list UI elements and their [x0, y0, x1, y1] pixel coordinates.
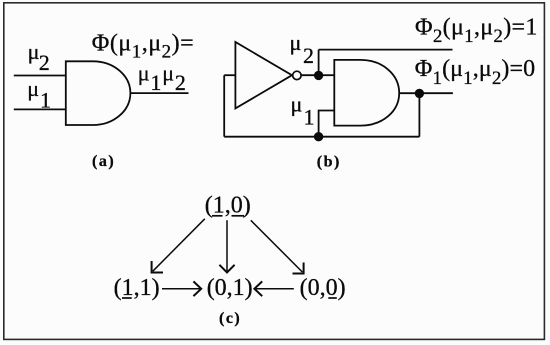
wire: output node down to bottom rail	[418, 93, 420, 136]
svg-text:μ: μ	[27, 76, 39, 101]
node output junction dot	[415, 89, 424, 98]
label u1 (node b)	[291, 92, 315, 130]
wire: node u2 riser up	[318, 50, 320, 76]
svg-text:(1,1): (1,1)	[114, 275, 160, 301]
underline under 0 of (1,0)	[232, 215, 245, 217]
svg-text:1: 1	[304, 105, 315, 130]
wire: node u2 to AND gate U3 top input	[319, 74, 335, 76]
wire: feedback vertical	[223, 75, 225, 137]
svg-text:(1,0): (1,0)	[205, 192, 251, 218]
arrow (0,0) to (0,1)	[254, 281, 293, 296]
wire: feedback stub into inverter input	[224, 74, 235, 76]
svg-text:1: 1	[40, 88, 51, 113]
wire: output of U1	[130, 92, 188, 94]
underline under 1 of (1,0)	[212, 215, 223, 217]
node u2 junction dot	[314, 71, 323, 80]
and-gate U3	[334, 60, 399, 126]
wire: top output Phi2	[319, 49, 453, 51]
label u1 (input a)	[27, 76, 51, 113]
arrow (1,0) to (0,0)	[251, 220, 305, 274]
arrow (1,1) to (0,1)	[162, 281, 201, 296]
arrow (1,0) to (0,1)	[219, 220, 234, 272]
wire: bottom rail	[224, 136, 419, 138]
arrow (1,0) to (1,1)	[151, 219, 205, 274]
inverter U2 bubble	[293, 71, 301, 79]
wire: bubble to node u2	[302, 74, 319, 76]
svg-text:(b): (b)	[317, 154, 341, 171]
wire: input u2 to AND gate U1	[14, 75, 66, 77]
wire: node u1 riser to AND gate U3 bottom input	[319, 111, 335, 137]
svg-text:μ: μ	[290, 30, 302, 55]
svg-text:(c): (c)	[219, 310, 241, 327]
wire: input u1 to AND gate U1	[14, 108, 66, 110]
label u2 (input a)	[28, 39, 50, 75]
svg-text:(a): (a)	[92, 153, 115, 170]
svg-text:2: 2	[303, 43, 314, 68]
svg-text:(0,1): (0,1)	[207, 275, 253, 301]
and-gate U1	[66, 61, 131, 125]
underline under first 1 of (1,1)	[122, 297, 132, 299]
svg-text:(0,0): (0,0)	[300, 275, 346, 301]
svg-text:μ: μ	[291, 92, 303, 117]
underline under second 0 of (0,0)	[328, 297, 337, 299]
label u2 (node b)	[290, 30, 315, 68]
inverter U2 triangle	[235, 42, 292, 108]
node u1 junction dot on bottom rail	[314, 132, 323, 141]
svg-text:μ: μ	[28, 39, 40, 64]
svg-text:2: 2	[39, 50, 50, 75]
wire: output of U3	[399, 92, 453, 94]
